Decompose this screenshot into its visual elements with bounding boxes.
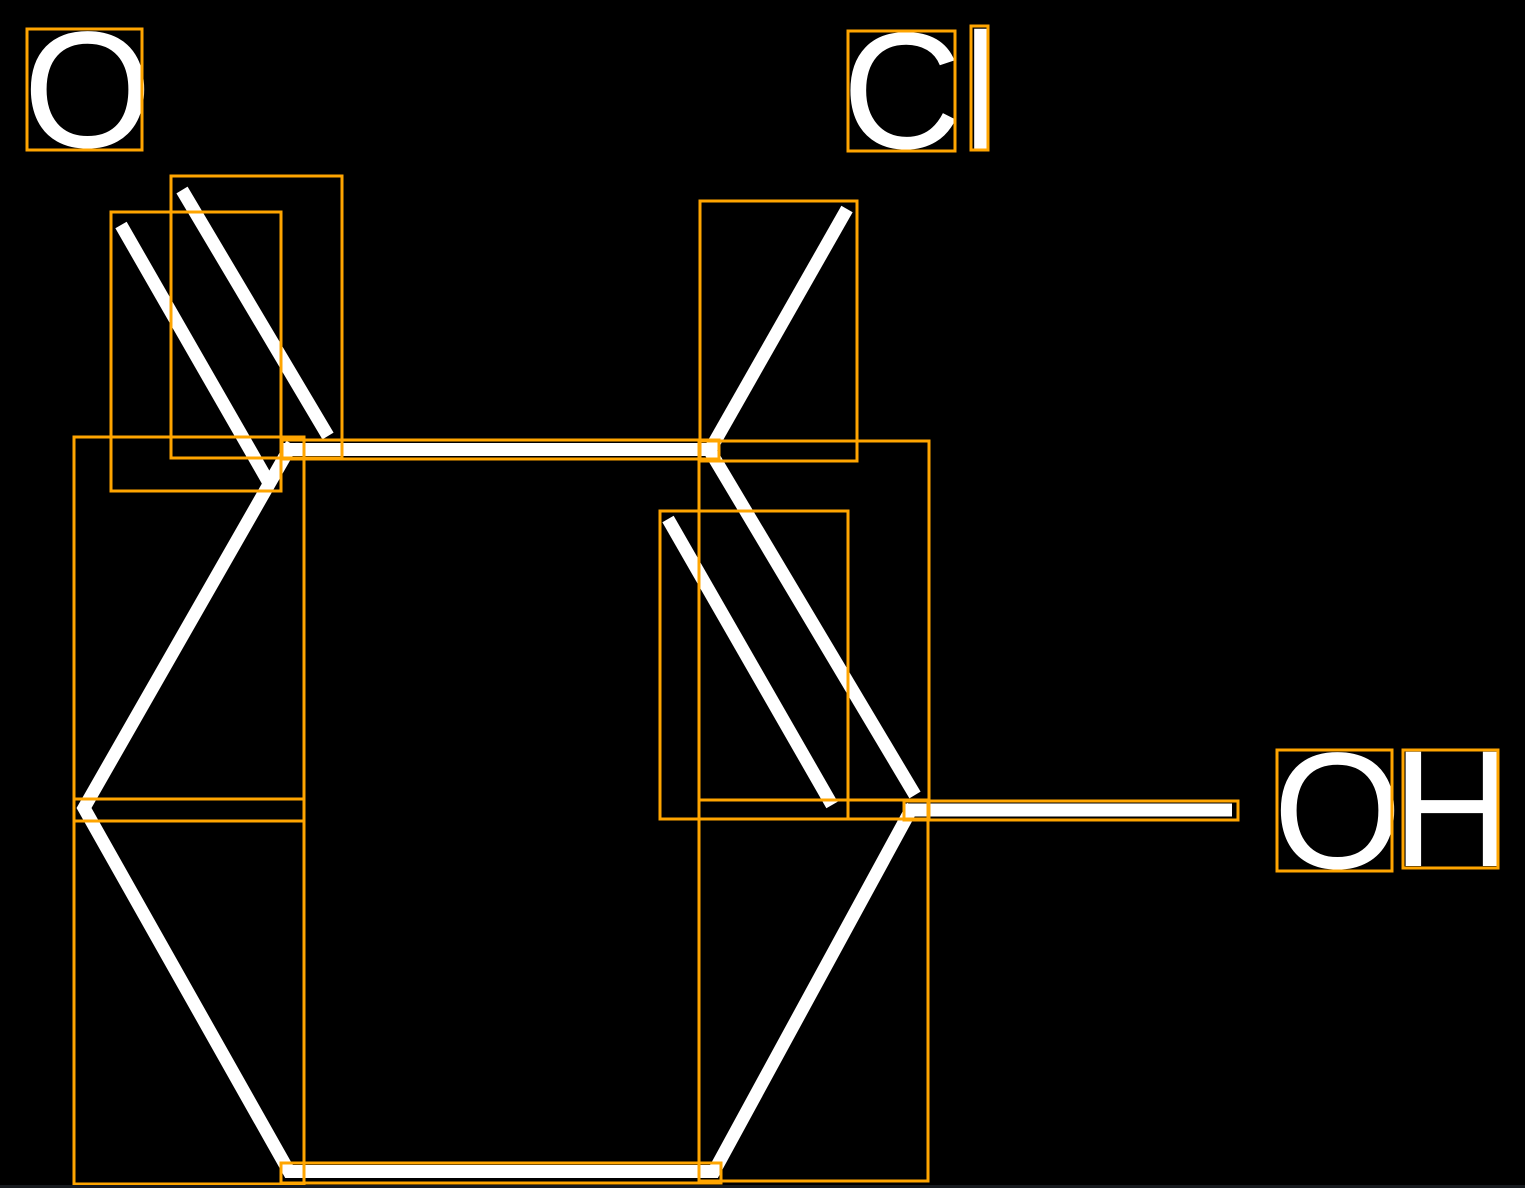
box atom OH letter H — [1403, 750, 1498, 868]
svg-text:l: l — [963, 0, 1000, 185]
svg-text:C: C — [842, 0, 962, 184]
bond C-OH — [905, 804, 1232, 817]
box bond ring D-E — [281, 1163, 721, 1183]
box atom OH letter O — [1277, 750, 1392, 871]
box bond ring C-D — [699, 800, 928, 1181]
box bond ring A-B — [282, 440, 719, 459]
box atom Cl letter l — [971, 26, 988, 150]
svg-text:O: O — [1273, 719, 1402, 904]
svg-text:O: O — [23, 0, 152, 183]
bond C=O outer line — [182, 190, 328, 436]
box bond ring E-F — [74, 799, 304, 1184]
bond ring A-B — [283, 443, 716, 456]
box bond C=O inner — [111, 212, 281, 491]
box bond C=O outer — [171, 176, 342, 458]
box bond C-OH — [904, 801, 1238, 820]
bond B=C main line — [710, 451, 915, 795]
bottom edge artifact strip — [0, 1185, 1525, 1188]
bond B=C inner line — [668, 519, 832, 805]
svg-text:H: H — [1392, 717, 1512, 902]
bond ring chain A-F-E-D-C (bonds A-F, F-E, E-D, D-C) — [84, 444, 913, 1172]
bond C=O inner line — [121, 225, 269, 483]
bond Cl-B — [710, 209, 847, 450]
box bond B=C inner — [660, 511, 848, 819]
box atom O — [27, 29, 142, 150]
box bond B=C main — [699, 441, 929, 819]
box bond Cl-B — [700, 201, 857, 461]
box bond ring A-F — [74, 437, 304, 821]
box atom Cl letter C — [848, 31, 955, 151]
